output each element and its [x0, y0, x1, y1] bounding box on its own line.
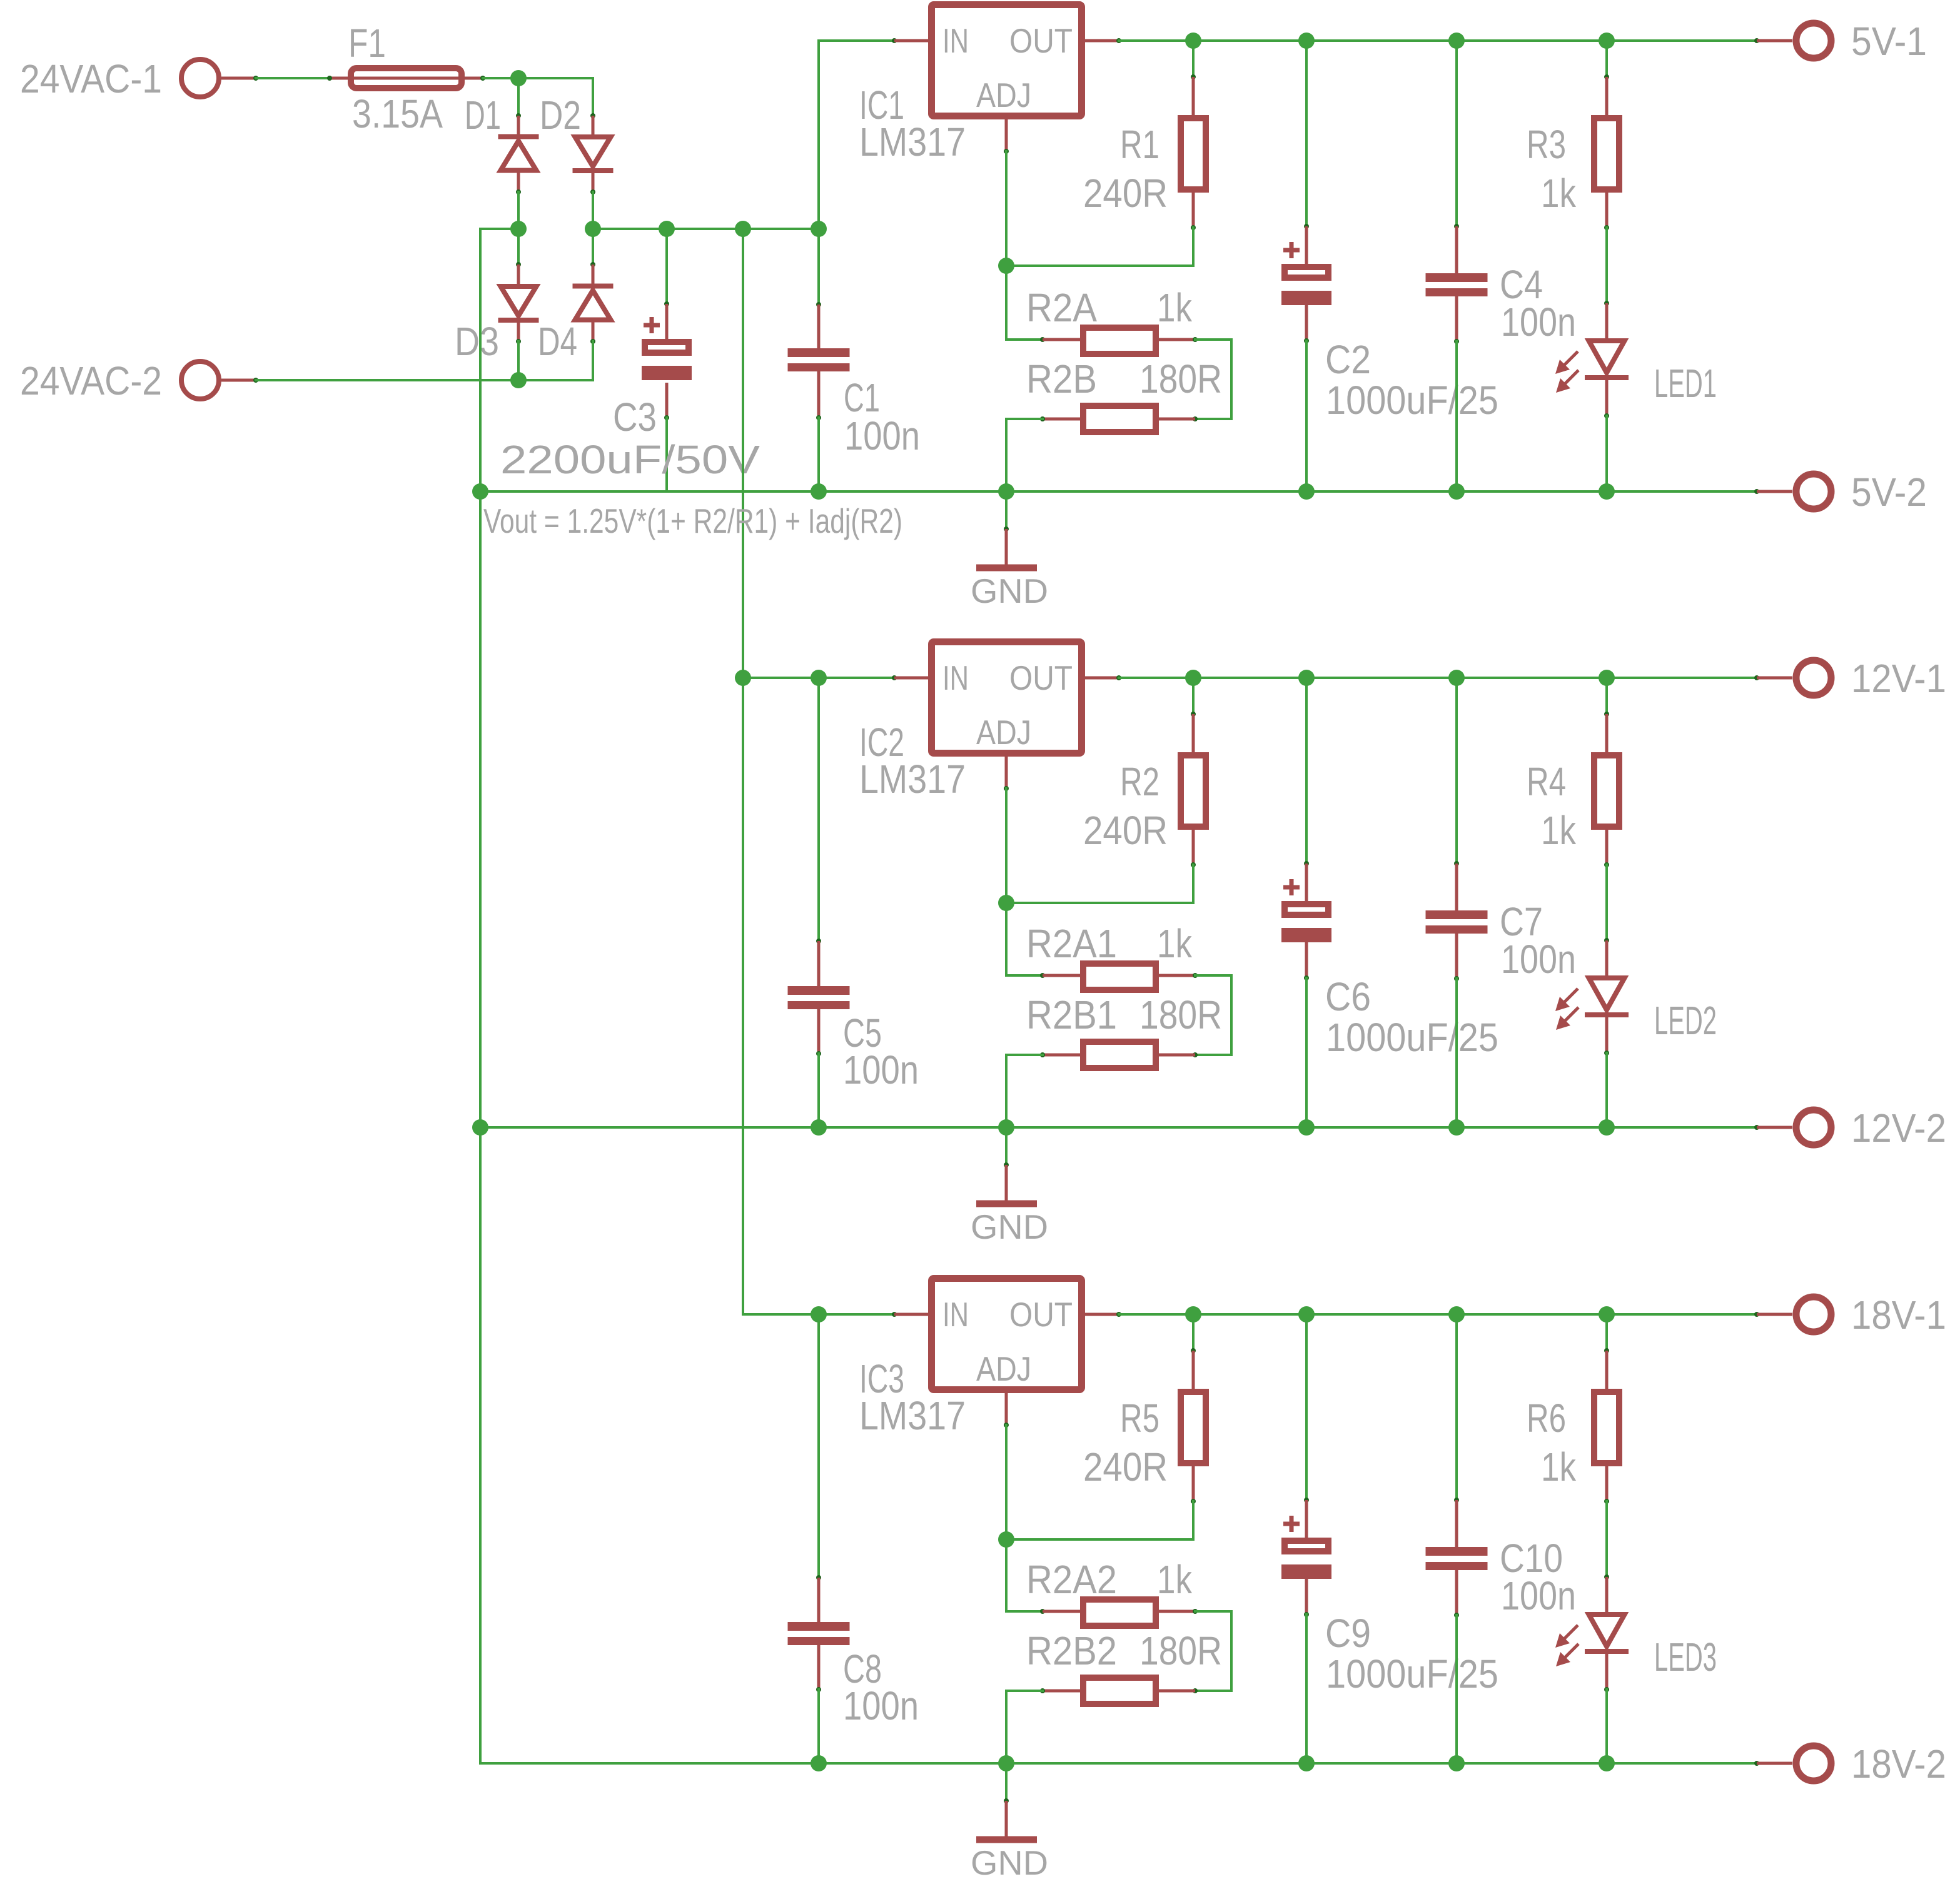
wire R2B left down to gnd rail — [1006, 1054, 1043, 1056]
svg-text:OUT: OUT — [1009, 1295, 1073, 1334]
junction LED column — [1599, 670, 1615, 686]
regulator IC2 LM317 — [892, 675, 897, 680]
junction C6 at gnd rail — [1298, 1119, 1315, 1136]
junction C9 at gnd rail — [1298, 1755, 1315, 1771]
svg-text:LED2: LED2 — [1654, 998, 1717, 1043]
svg-text:C6: C6 — [1325, 974, 1371, 1019]
junction C elec column — [1298, 33, 1315, 49]
svg-text:R3: R3 — [1527, 122, 1566, 167]
wire R to LED — [1605, 228, 1608, 303]
wire LED to gnd rail — [1605, 1053, 1608, 1127]
junction C8 at gnd rail — [811, 1755, 827, 1771]
wire 12V-2 gnd rail — [480, 1126, 1757, 1129]
wire LED to gnd rail — [1605, 416, 1608, 491]
junction ADJ node — [998, 258, 1014, 274]
junction C film column — [1448, 1306, 1465, 1322]
junction C8 column — [811, 1306, 827, 1322]
wire ADJ down — [1005, 1425, 1008, 1539]
wire R to LED — [1605, 865, 1608, 940]
wire R2A right down — [1195, 1610, 1231, 1613]
diode D2 — [590, 113, 595, 118]
junction C1 at gnd rail — [811, 483, 827, 500]
wire C1 column up to IN row — [817, 41, 820, 229]
wire 24VAC-2 rail — [256, 379, 593, 381]
svg-text:F1: F1 — [348, 21, 386, 66]
wire fuse to node A — [483, 77, 518, 79]
svg-text:1000uF/25: 1000uF/25 — [1326, 1651, 1498, 1696]
resistor R4 1k — [1605, 678, 1608, 714]
DC+ rail to C1 column — [593, 228, 819, 230]
svg-text:2200uF/50V: 2200uF/50V — [500, 437, 760, 482]
capacitor C7 100n — [1455, 678, 1458, 864]
wire DC+ to IC3 IN — [743, 1313, 894, 1316]
svg-text:LED3: LED3 — [1654, 1635, 1717, 1680]
svg-text:1k: 1k — [1541, 1444, 1577, 1489]
wire R to LED — [1605, 1501, 1608, 1577]
junction LED1 at gnd rail — [1599, 483, 1615, 500]
ground symbol GND2 — [1005, 1127, 1008, 1165]
junction C film column — [1448, 33, 1465, 49]
wire 5V-2 gnd rail — [480, 490, 1757, 493]
svg-text:180R: 180R — [1139, 356, 1222, 401]
svg-text:ADJ: ADJ — [976, 713, 1031, 752]
resistor R2A1 1k — [1040, 973, 1045, 978]
wire R2B left down to gnd rail — [1006, 1690, 1043, 1692]
svg-text:Vout = 1.25V*(1+ R2/R1) + Iadj: Vout = 1.25V*(1+ R2/R1) + Iadj(R2) — [483, 501, 902, 540]
svg-text:180R: 180R — [1139, 992, 1222, 1037]
svg-text:3.15A: 3.15A — [352, 91, 443, 136]
svg-text:ADJ: ADJ — [976, 1349, 1031, 1388]
terminal 24VAC-1 — [181, 59, 219, 97]
junction DC+ vertical — [735, 221, 751, 237]
junction C elec column — [1298, 670, 1315, 686]
svg-text:240R: 240R — [1083, 1444, 1168, 1489]
capacitor C9 1000uF — [1305, 1314, 1308, 1500]
diode D3 — [517, 229, 520, 264]
wire OUT rail — [1119, 1313, 1757, 1316]
svg-text:24VAC-1: 24VAC-1 — [20, 56, 162, 101]
wire R2A right down — [1195, 974, 1231, 977]
junction C elec column — [1298, 1306, 1315, 1322]
svg-text:240R: 240R — [1083, 171, 1168, 216]
capacitor C5 100n — [817, 678, 820, 941]
resistor R5 240R — [1192, 1314, 1195, 1351]
node DC+ (cathodes) — [585, 221, 601, 237]
svg-text:R5: R5 — [1120, 1396, 1159, 1441]
capacitor C6 1000uF — [1305, 678, 1308, 864]
svg-text:100n: 100n — [843, 1047, 919, 1092]
wire D1 to DC- node — [517, 192, 520, 229]
junction R column — [1185, 1306, 1201, 1322]
svg-text:C9: C9 — [1325, 1611, 1371, 1656]
svg-text:R2B1: R2B1 — [1026, 992, 1117, 1037]
wire 24VAC-1 to fuse — [256, 77, 330, 79]
resistor R2B 180R — [1193, 416, 1198, 421]
svg-text:ADJ: ADJ — [976, 76, 1031, 114]
resistor R6 1k — [1605, 1314, 1608, 1351]
wire node A down to D1 — [517, 78, 520, 116]
svg-text:R2B: R2B — [1026, 356, 1097, 401]
wire R bottom to ADJ — [1192, 865, 1195, 903]
svg-text:R2A1: R2A1 — [1026, 921, 1117, 966]
svg-text:R2A2: R2A2 — [1026, 1557, 1117, 1602]
svg-text:GND: GND — [971, 1207, 1048, 1246]
ground symbol GND1 — [1005, 491, 1008, 529]
wire R2B left down to gnd rail — [1006, 418, 1043, 420]
svg-text:C2: C2 — [1325, 337, 1371, 382]
wire DC+ to IC2 IN — [743, 677, 894, 679]
svg-text:1000uF/25: 1000uF/25 — [1326, 378, 1498, 423]
svg-text:D4: D4 — [538, 319, 577, 364]
node DC- (anodes) — [510, 221, 527, 237]
terminal 18V-2 — [1754, 1761, 1759, 1766]
node A junction — [510, 70, 527, 86]
wire DC- vertical — [479, 229, 482, 1763]
junction LED3 at gnd rail — [1599, 1755, 1615, 1771]
svg-text:LM317: LM317 — [859, 1393, 966, 1438]
svg-text:LM317: LM317 — [859, 757, 966, 802]
regulator IC1 LM317 — [892, 38, 897, 43]
svg-text:1000uF/25: 1000uF/25 — [1326, 1015, 1498, 1060]
wire OUT rail — [1119, 677, 1757, 679]
capacitor C8 100n — [817, 1314, 820, 1578]
junction C10 at gnd rail — [1448, 1755, 1465, 1771]
svg-text:R6: R6 — [1527, 1396, 1566, 1441]
wire ADJ down — [1005, 151, 1008, 266]
junction ADJ node — [998, 895, 1014, 911]
svg-text:100n: 100n — [1501, 300, 1576, 345]
svg-text:1k: 1k — [1157, 1557, 1193, 1602]
capacitor C1 100n — [817, 229, 820, 305]
capacitor C2 1000uF — [1305, 41, 1308, 226]
svg-text:R2: R2 — [1120, 759, 1159, 804]
junction LED column — [1599, 1306, 1615, 1322]
junction C2 at gnd rail — [1298, 483, 1315, 500]
terminal 5V-1 — [1754, 38, 1759, 43]
resistor R3 1k — [1605, 41, 1608, 77]
junction R column — [1185, 670, 1201, 686]
svg-text:D2: D2 — [540, 93, 581, 138]
resistor R2B2 180R — [1193, 1688, 1198, 1693]
LED LED2 — [1604, 938, 1609, 943]
svg-text:100n: 100n — [844, 413, 920, 458]
svg-text:IN: IN — [942, 658, 969, 697]
regulator IC3 LM317 — [892, 1312, 897, 1317]
junction R2B at gnd rail — [998, 483, 1014, 500]
svg-text:GND: GND — [971, 1843, 1048, 1882]
svg-text:100n: 100n — [1501, 937, 1576, 982]
resistor R2A2 1k — [1040, 1609, 1045, 1614]
wire R bottom to ADJ — [1192, 228, 1195, 266]
svg-text:12V-2: 12V-2 — [1851, 1106, 1946, 1151]
junction LED column — [1599, 33, 1615, 49]
LED LED1 — [1604, 301, 1609, 306]
svg-text:R4: R4 — [1527, 759, 1566, 804]
svg-text:IN: IN — [942, 21, 969, 60]
ground symbol GND3 — [1005, 1763, 1008, 1801]
terminal 12V-1 — [1754, 675, 1759, 680]
capacitor C10 100n — [1455, 1314, 1458, 1500]
wire 18V-2 gnd rail — [480, 1762, 1757, 1765]
terminal 18V-1 — [1754, 1312, 1759, 1317]
junction DC+ at IC2 — [735, 670, 751, 686]
svg-text:C3: C3 — [613, 395, 657, 440]
junction C5 column — [811, 670, 827, 686]
resistor R2 240R — [1192, 678, 1195, 714]
svg-text:1k: 1k — [1541, 171, 1577, 216]
svg-text:24VAC-2: 24VAC-2 — [20, 358, 162, 403]
svg-text:1k: 1k — [1541, 808, 1577, 853]
svg-text:LED1: LED1 — [1654, 361, 1717, 406]
junction ADJ node — [998, 1531, 1014, 1548]
svg-text:1k: 1k — [1157, 921, 1193, 966]
junction D3 bottom — [510, 372, 527, 388]
wire DC+ vertical — [742, 229, 744, 1314]
junction DC- at 5V-2 rail — [472, 483, 488, 500]
junction C5 at gnd rail — [811, 1119, 827, 1136]
junction R2B at gnd rail — [998, 1119, 1014, 1136]
LED LED3 — [1604, 1574, 1609, 1579]
svg-text:18V-1: 18V-1 — [1851, 1292, 1946, 1337]
capacitor C3 — [665, 229, 668, 304]
wire LED to gnd rail — [1605, 1690, 1608, 1763]
junction C7 at gnd rail — [1448, 1119, 1465, 1136]
svg-text:100n: 100n — [843, 1683, 919, 1728]
terminal 12V-2 — [1754, 1125, 1759, 1130]
wire OUT rail — [1119, 39, 1757, 42]
wire D2 to DC+ node — [592, 192, 594, 229]
svg-text:D1: D1 — [465, 93, 501, 138]
svg-text:12V-1: 12V-1 — [1851, 656, 1946, 701]
svg-text:100n: 100n — [1501, 1573, 1576, 1618]
diode D4 — [592, 229, 594, 264]
svg-text:D3: D3 — [455, 319, 499, 364]
junction C1 column — [811, 221, 827, 237]
junction C3 column — [659, 221, 675, 237]
wire R2A right down — [1195, 338, 1231, 341]
svg-text:GND: GND — [971, 572, 1048, 610]
wire R bottom to ADJ — [1192, 1501, 1195, 1539]
svg-text:5V-1: 5V-1 — [1851, 19, 1927, 64]
svg-text:OUT: OUT — [1009, 21, 1073, 60]
svg-text:240R: 240R — [1083, 808, 1168, 853]
svg-text:180R: 180R — [1139, 1628, 1222, 1673]
svg-text:IN: IN — [942, 1295, 969, 1334]
svg-text:LM317: LM317 — [859, 119, 966, 164]
wire ADJ down — [1005, 788, 1008, 903]
svg-text:5V-2: 5V-2 — [1851, 470, 1927, 515]
junction DC- at 12V-2 rail — [472, 1119, 488, 1136]
junction R column — [1185, 33, 1201, 49]
junction LED2 at gnd rail — [1599, 1119, 1615, 1136]
resistor R2B1 180R — [1193, 1052, 1198, 1057]
junction C film column — [1448, 670, 1465, 686]
svg-text:R1: R1 — [1120, 122, 1159, 167]
fuse F1 — [330, 77, 348, 80]
resistor R1 240R — [1192, 41, 1195, 77]
capacitor C4 100n — [1455, 41, 1458, 226]
terminal 5V-2 — [1754, 489, 1759, 494]
svg-text:18V-2: 18V-2 — [1851, 1741, 1946, 1786]
svg-text:R2A: R2A — [1026, 285, 1097, 330]
diode D1 — [516, 113, 521, 118]
junction C4 at gnd rail — [1448, 483, 1465, 500]
svg-text:OUT: OUT — [1009, 658, 1073, 697]
wire node A to D2 column — [518, 77, 593, 79]
svg-text:1k: 1k — [1157, 285, 1193, 330]
junction R2B at gnd rail — [998, 1755, 1014, 1771]
resistor R2A 1k — [1040, 337, 1045, 342]
svg-text:R2B2: R2B2 — [1026, 1628, 1117, 1673]
terminal 24VAC-2 — [181, 361, 219, 399]
